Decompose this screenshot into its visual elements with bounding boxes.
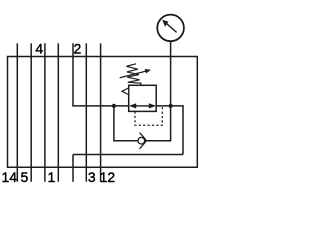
- wire port line 3: [85, 43, 87, 182]
- wire right edge: [196, 57, 198, 168]
- node junction dot right: [169, 104, 173, 108]
- wire port line 2 upper segment into regulator: [73, 43, 129, 106]
- wire gauge stem: [170, 41, 172, 57]
- adjustment arrow: [120, 71, 147, 78]
- wire return rail to port 2 stub: [73, 154, 183, 156]
- wire left edge: [7, 57, 9, 168]
- svg-text:12: 12: [100, 169, 116, 185]
- relief vent triangle: [122, 88, 129, 95]
- regulator U1 flow path shaft: [135, 105, 150, 107]
- svg-text:3: 3: [88, 169, 96, 185]
- wire port line 12: [100, 43, 102, 182]
- wire regulator output line: [156, 106, 183, 155]
- wire port line 4: [44, 43, 46, 182]
- regulator U1 body: [129, 85, 157, 111]
- svg-text:2: 2: [74, 41, 82, 57]
- svg-text:1: 1: [48, 169, 56, 185]
- svg-text:4: 4: [35, 41, 43, 57]
- wire top rail (node 1 manifold): [7, 56, 198, 58]
- svg-text:14: 14: [2, 169, 18, 185]
- node junction dot left: [112, 104, 116, 108]
- wire port line 5: [30, 43, 32, 182]
- wire port line 1: [57, 43, 59, 182]
- wire check valve branch right: [144, 106, 170, 141]
- wire bottom rail: [7, 166, 198, 168]
- pressure gauge G1: [157, 15, 184, 42]
- wire check valve branch left: [114, 106, 138, 141]
- spring (adjustment): [126, 64, 140, 86]
- wire gauge drop line: [170, 57, 172, 106]
- regulator U1 flow path arrows: [129, 103, 156, 108]
- gauge needle: [166, 23, 177, 33]
- svg-text:5: 5: [21, 169, 29, 185]
- wire port line 14: [16, 43, 18, 182]
- check valve CV1: [138, 133, 146, 149]
- wire port line 2 lower stub: [72, 155, 74, 182]
- pilot line (dashed): [135, 106, 162, 125]
